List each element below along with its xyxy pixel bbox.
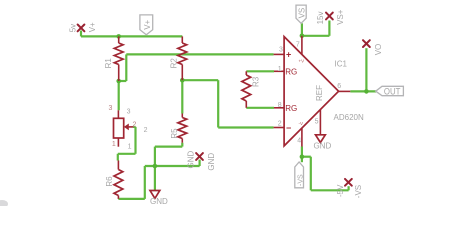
svg-text:1: 1	[112, 141, 116, 148]
svg-text:GND: GND	[186, 151, 195, 169]
svg-text:R1: R1	[104, 58, 113, 69]
svg-text:VS: VS	[298, 8, 307, 19]
svg-text:REF: REF	[315, 85, 324, 101]
svg-text:-VS: -VS	[354, 185, 363, 198]
svg-text:2: 2	[132, 121, 136, 128]
svg-text:VO: VO	[374, 44, 383, 56]
svg-text:3: 3	[279, 47, 283, 54]
svg-text:GND: GND	[207, 153, 216, 171]
svg-text:8: 8	[278, 102, 282, 109]
svg-text:GND: GND	[314, 142, 332, 151]
svg-text:R2: R2	[170, 58, 179, 69]
svg-text:V+: V+	[88, 22, 97, 32]
svg-text:RG: RG	[285, 104, 297, 113]
svg-text:1: 1	[278, 66, 282, 73]
svg-text:3: 3	[108, 105, 112, 112]
svg-text:−: −	[286, 123, 291, 133]
svg-text:1: 1	[128, 143, 132, 150]
svg-text:2: 2	[278, 120, 282, 127]
svg-text:15v: 15v	[316, 11, 325, 24]
svg-text:2: 2	[144, 127, 148, 134]
svg-text:+: +	[286, 49, 291, 59]
svg-text:5: 5	[315, 118, 319, 125]
svg-text:GND: GND	[150, 197, 168, 206]
svg-text:V+: V+	[143, 19, 152, 29]
svg-text:6: 6	[337, 83, 341, 90]
svg-text:VS+: VS+	[336, 9, 345, 25]
svg-text:OUT: OUT	[384, 86, 401, 96]
svg-text:-V: -V	[299, 121, 304, 126]
svg-text:5v: 5v	[68, 24, 77, 32]
svg-text:AD620N: AD620N	[334, 113, 364, 122]
svg-text:RG: RG	[285, 68, 297, 77]
svg-text:R5: R5	[170, 128, 179, 139]
svg-text:7: 7	[296, 42, 300, 49]
svg-text:4: 4	[297, 138, 301, 145]
svg-text:R6: R6	[105, 176, 114, 187]
svg-text:+V: +V	[299, 58, 305, 63]
svg-text:3: 3	[127, 109, 131, 116]
svg-text:R3: R3	[251, 76, 260, 87]
svg-text:-5V: -5V	[336, 184, 345, 197]
svg-text:-VS: -VS	[297, 174, 304, 186]
svg-text:IC1: IC1	[335, 59, 348, 68]
